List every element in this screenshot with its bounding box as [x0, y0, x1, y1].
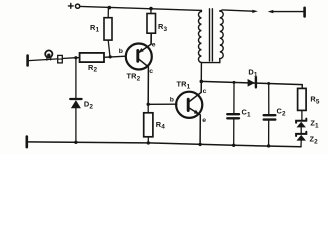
svg-text:R4: R4: [156, 120, 165, 131]
svg-text:e: e: [152, 42, 156, 49]
svg-text:R3: R3: [158, 22, 167, 33]
svg-text:TR1: TR1: [177, 80, 191, 91]
svg-text:D1: D1: [248, 68, 257, 79]
svg-text:C2: C2: [277, 106, 286, 117]
svg-text:TR2: TR2: [127, 72, 141, 83]
svg-text:b: b: [119, 48, 123, 55]
svg-text:c: c: [203, 88, 207, 95]
svg-text:C1: C1: [242, 108, 251, 119]
svg-text:b: b: [170, 97, 174, 104]
svg-text:R5: R5: [310, 95, 319, 106]
svg-text:Z1: Z1: [310, 119, 319, 130]
svg-text:e: e: [202, 117, 206, 124]
svg-text:R2: R2: [88, 63, 97, 74]
svg-text:R1: R1: [90, 23, 99, 34]
svg-text:Z2: Z2: [310, 135, 319, 146]
svg-text:D2: D2: [84, 100, 93, 111]
svg-text:c: c: [149, 68, 153, 75]
